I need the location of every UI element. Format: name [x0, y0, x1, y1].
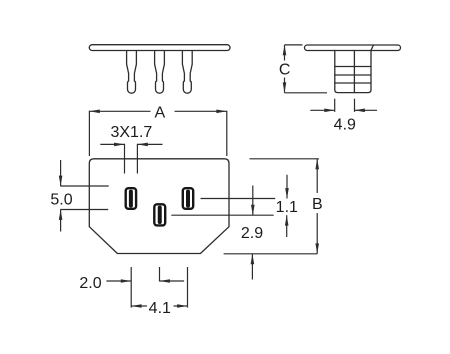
main body outline (front view) — [89, 159, 229, 254]
dim B top extension line — [250, 158, 320, 160]
dim 4.9 extension line right — [354, 99, 356, 112]
dim 4.1 arrowhead left — [131, 304, 141, 308]
dim 5.0 lower line — [60, 209, 108, 211]
dim 4.9 arrowhead right — [355, 109, 365, 113]
dim 1.7 arrowhead right — [137, 143, 147, 147]
flange bar (top-right side view) — [305, 45, 401, 51]
dim 2.0 extension line — [130, 267, 132, 308]
dim 1.1 lower arrow shaft — [286, 215, 288, 237]
dim 2.9 arrowhead upper — [251, 205, 255, 215]
pin P3 (side view) — [182, 51, 192, 93]
dim B upper shaft — [316, 159, 318, 193]
svg-text:A: A — [154, 104, 165, 121]
dim C lower shaft — [284, 78, 286, 93]
dim 5.0 arrowhead upper — [59, 176, 63, 186]
dim C top extension line — [285, 44, 303, 46]
pin P1 (side view) — [127, 51, 137, 93]
dim 4.9 arrow shaft left — [310, 109, 334, 111]
dim B arrowhead top — [315, 159, 319, 169]
svg-text:2.0: 2.0 — [79, 275, 101, 292]
svg-text:2.9: 2.9 — [241, 225, 263, 242]
dim 2.9 upper arrow shaft — [252, 186, 254, 216]
dim A arrowhead right — [216, 110, 226, 114]
dim 1.7 arrow shaft right — [137, 143, 162, 145]
svg-text:4.9: 4.9 — [334, 116, 356, 133]
dim C arrowhead bottom — [283, 82, 287, 92]
dim 1.7 arrow shaft left — [100, 143, 124, 145]
dim 4.9 extension line left — [334, 99, 336, 112]
dim 2.0 middle arrowhead — [160, 279, 170, 283]
svg-text:5.0: 5.0 — [50, 191, 72, 208]
dim 2.0 arrow shaft — [106, 280, 131, 282]
dim 1.7 arrowhead left — [114, 143, 124, 147]
dim 4.1 right segment — [174, 305, 188, 307]
dim 1.1 arrowhead upper — [285, 188, 289, 198]
dim C bottom extension line — [285, 92, 328, 94]
slot S3 inner contact — [186, 190, 190, 208]
flange bar (top-left side view) — [89, 45, 230, 51]
dim B lower shaft — [316, 213, 318, 254]
dim 2.0 middle arrow shaft — [160, 280, 185, 282]
dim B arrowhead bottom — [315, 243, 319, 253]
dim 2.0 middle extension line — [159, 267, 161, 282]
dim C arrowhead top — [283, 45, 287, 55]
slot S1 inner contact — [129, 190, 133, 208]
body segment line 1 — [335, 66, 371, 68]
dim A line right segment — [175, 110, 227, 112]
dim 1.7 extension line left — [124, 144, 126, 174]
dim 4.9 arrow shaft right — [355, 109, 378, 111]
slot S3 outer — [183, 188, 193, 209]
dim C upper shaft — [284, 45, 286, 61]
dim B bottom extension line — [224, 253, 318, 255]
dim 4.1 extension line right — [187, 267, 189, 308]
dim 2.9 lower arrow shaft — [251, 254, 253, 280]
dim 4.9 arrowhead left — [324, 109, 334, 113]
svg-text:3X1.7: 3X1.7 — [110, 124, 152, 141]
slot S2 inner contact — [158, 206, 162, 224]
dim 1.7 extension line right — [136, 144, 138, 174]
slot S2 outer — [154, 204, 165, 225]
svg-text:4.1: 4.1 — [149, 300, 171, 317]
dim 4.1 left segment — [131, 305, 147, 307]
body center edge line — [353, 51, 355, 93]
leader line right slot center — [201, 198, 276, 200]
body segment line 3 — [335, 82, 371, 84]
dim 2.9 arrowhead lower — [251, 254, 255, 264]
dim 5.0 upper line — [60, 185, 108, 187]
parting tick on flange — [371, 45, 373, 50]
pin P2 (side view) — [155, 51, 165, 93]
dim A arrowhead left — [89, 110, 99, 114]
svg-text:C: C — [279, 62, 291, 79]
slot S1 outer — [126, 188, 136, 209]
body segment line 2 — [335, 74, 371, 76]
dim 4.1 arrowhead right — [177, 304, 187, 308]
dim 5.0 upper arrow shaft — [60, 160, 62, 186]
dim 1.1 arrowhead lower — [285, 215, 289, 225]
body (top-right side view) — [335, 51, 371, 93]
dim A line left segment — [89, 110, 150, 112]
dim A extension line right — [226, 111, 228, 156]
dim 5.0 lower arrow shaft — [60, 210, 62, 232]
svg-text:1.1: 1.1 — [276, 199, 298, 216]
leader line middle slot center — [171, 214, 273, 216]
dim 2.0 arrowhead — [121, 279, 131, 283]
dim 5.0 arrowhead lower — [59, 210, 63, 220]
dim A extension line left — [88, 111, 90, 156]
svg-text:B: B — [312, 196, 323, 213]
dim 1.1 upper arrow shaft — [286, 175, 288, 199]
